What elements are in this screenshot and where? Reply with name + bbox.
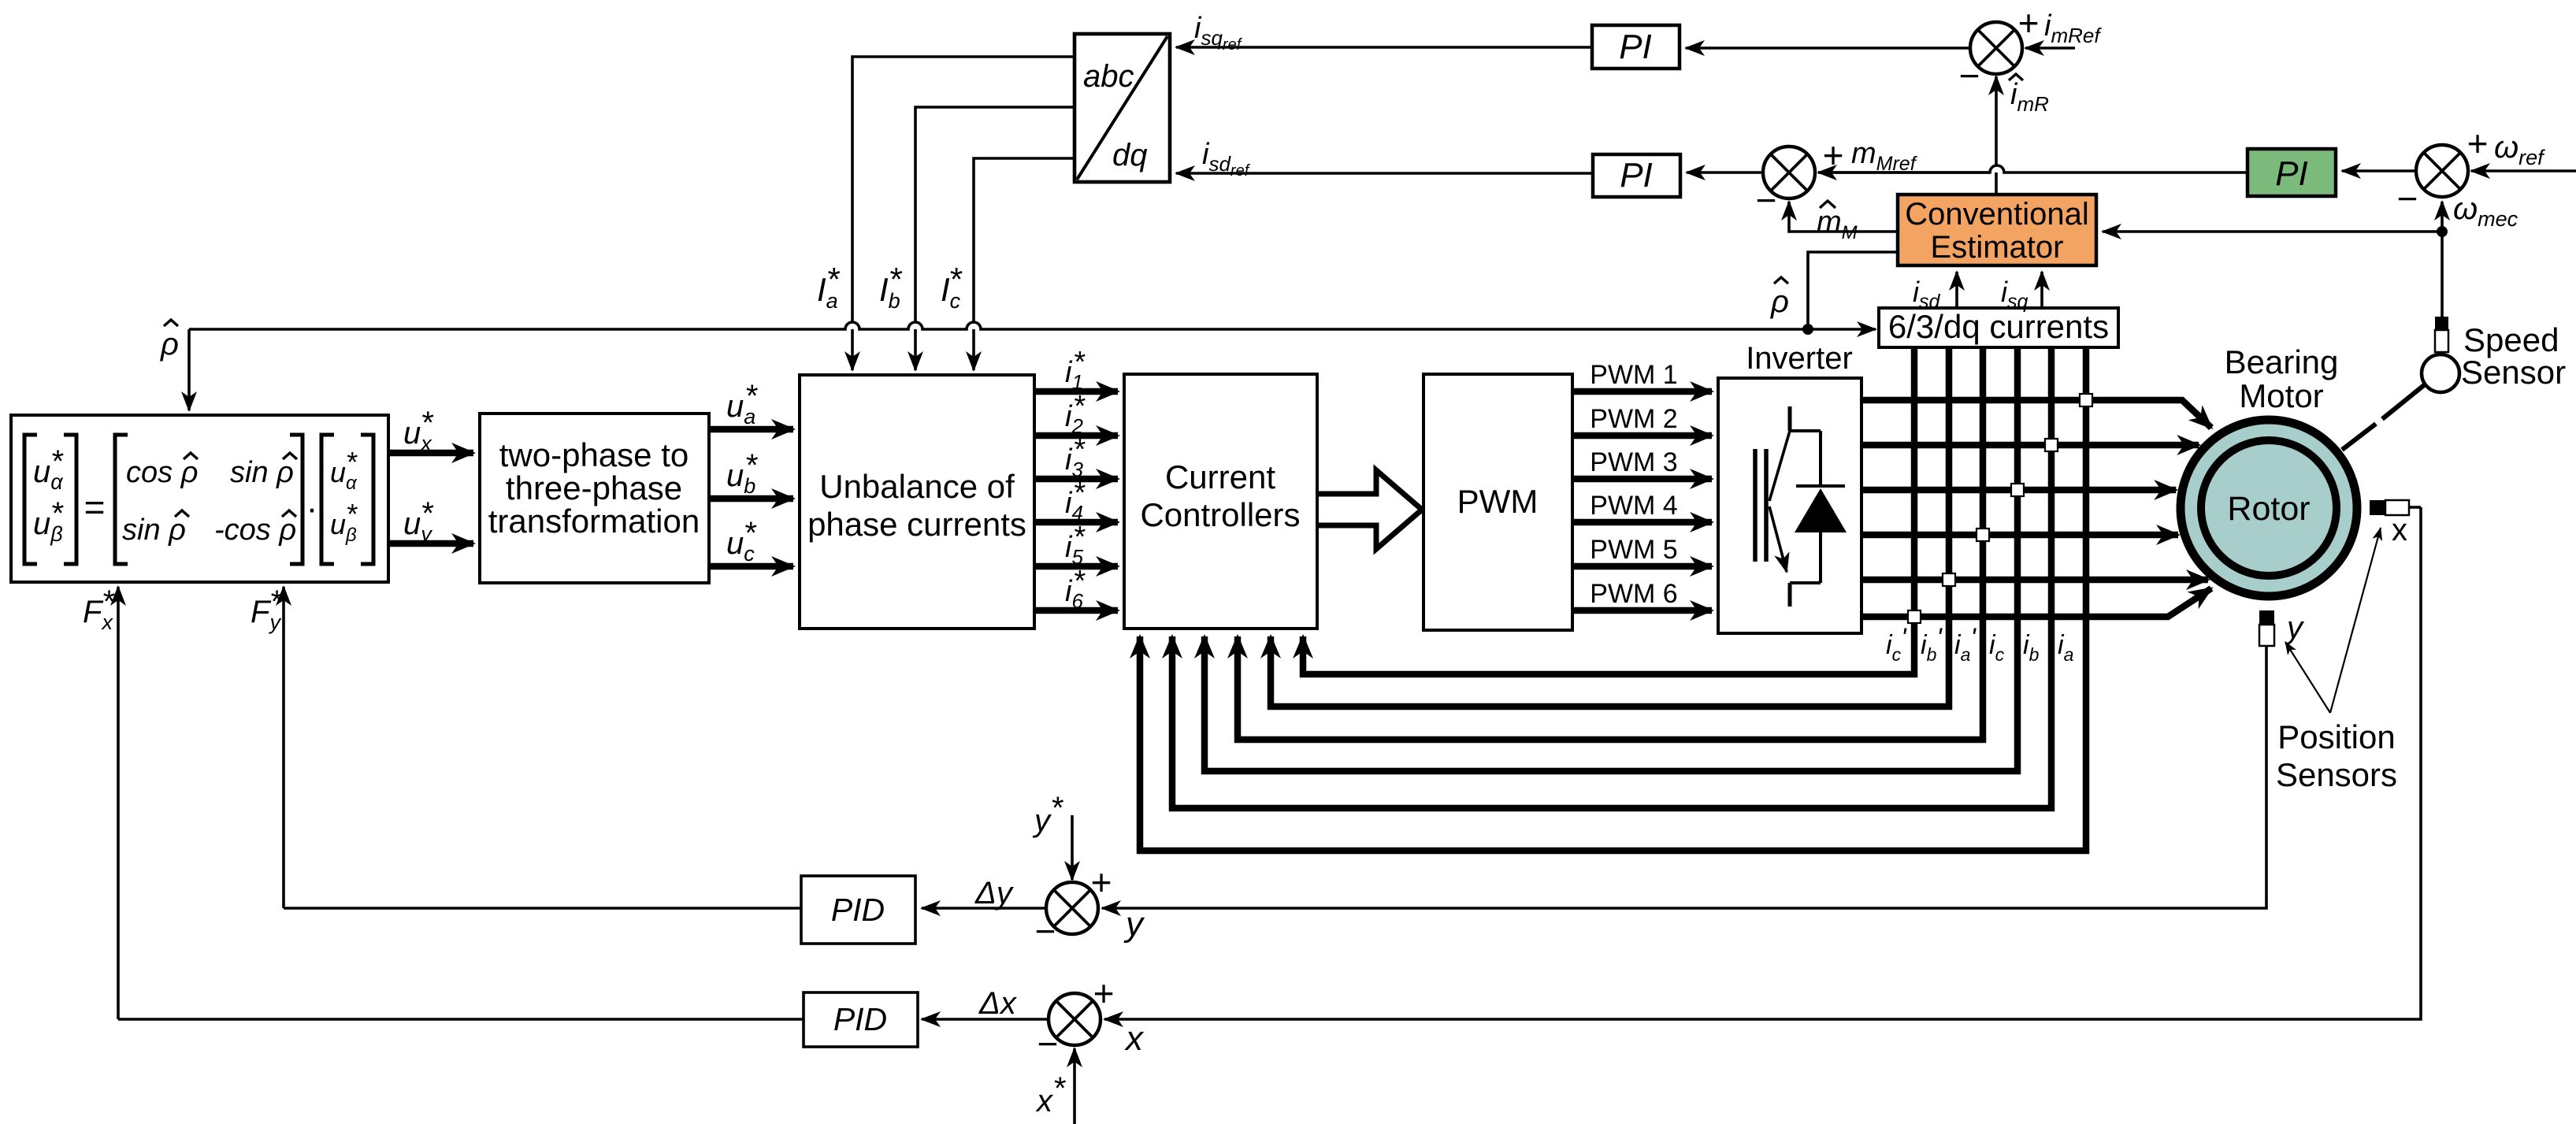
svg-text:PI: PI [1620,156,1653,195]
wire delta-y [922,907,1046,910]
wire sense current ic-prime [1303,347,1914,674]
summing junction torque [1763,147,1815,198]
svg-text:+: + [2467,123,2489,164]
wire x feedback [2408,506,2421,509]
block arrow current-controllers to PWM [1319,470,1422,549]
wire PWM2 [1572,432,1712,440]
svg-text:-cos ρ: -cos ρ [214,514,296,547]
svg-text:PWM 3: PWM 3 [1590,447,1677,477]
svg-text:y: y [2285,610,2305,645]
position sensor y icon [2259,610,2274,625]
svg-text:PWM 5: PWM 5 [1590,535,1677,565]
wire uc-star [709,563,793,570]
svg-text:−: − [1037,1023,1059,1064]
wire i6-star [1034,607,1118,614]
wire PWM5 [1572,563,1712,570]
svg-text:PWM 2: PWM 2 [1590,404,1677,434]
wire motor line 5 [1861,577,2208,584]
svg-text:Δy: Δy [974,876,1015,911]
svg-text:+: + [1091,862,1112,903]
wire PWM4 [1572,519,1712,526]
wire motor line 6 [1861,588,2211,617]
summing junction x [1049,993,1101,1045]
wire omega-ref [2471,169,2576,172]
wire sense current ib-prime [1271,347,1949,707]
wire omega-mec to estimator [2103,230,2442,233]
wire Ia-star [852,57,1075,370]
wire isd [1955,272,1958,308]
wire PWM6 [1572,607,1712,614]
svg-text:−: − [1035,911,1056,952]
svg-text:ρ: ρ [160,327,179,362]
wire isq [2040,272,2043,308]
svg-text:6/3/dq currents: 6/3/dq currents [1888,308,2109,345]
summing junction omega [2416,145,2468,197]
svg-text:PID: PID [833,1001,887,1037]
svg-text:Sensors: Sensors [2276,756,2397,793]
svg-text:cos ρ: cos ρ [126,456,198,489]
svg-text:Conventional: Conventional [1905,197,2089,232]
block unbalance of phase currents [800,375,1034,629]
wire sense current ib [1172,347,2051,808]
wire rho-hat from estimator [1808,252,1898,324]
block PI isq [1592,25,1680,69]
svg-text:x: x [2392,513,2407,547]
svg-text:x: x [1124,1019,1145,1058]
wire isd-ref [1176,172,1593,175]
svg-text:PI: PI [2275,154,2308,193]
wire imRef [2025,46,2075,50]
svg-text:*: * [1054,1071,1067,1106]
svg-text:abc: abc [1083,59,1134,94]
svg-text:Speed: Speed [2463,321,2559,358]
svg-text:two-phase to: two-phase to [499,436,689,473]
wire sense current ia-prime [1238,347,1983,740]
svg-text:·: · [306,489,318,528]
svg-text:Bearing: Bearing [2225,343,2339,380]
wire i3-star [1034,476,1118,483]
position sensor x icon [2370,500,2385,515]
wire torque junction to PI2 [1687,171,1763,174]
svg-text:PWM 6: PWM 6 [1590,579,1677,609]
block inverter box [1718,378,1861,633]
wire isq-ref [1176,46,1592,49]
wire i2-star [1034,432,1118,440]
wire rho to currents block [1808,328,1876,331]
bearing motor with rotor [2181,420,2357,596]
matrix transformation block [11,415,388,582]
svg-text:three-phase: three-phase [506,469,682,506]
svg-text:PI: PI [1619,28,1652,66]
wire motor line 3 [1861,487,2176,494]
wire sense current ic [1204,347,2017,771]
svg-text:*: * [1052,791,1064,825]
svg-text:Sensor: Sensor [2461,354,2566,391]
svg-text:PWM: PWM [1457,483,1539,520]
svg-text:Inverter: Inverter [1746,341,1853,376]
svg-text:Estimator: Estimator [1931,230,2064,265]
svg-text:x: x [1035,1084,1054,1118]
svg-text:PID: PID [831,892,885,928]
speed sensor icon [2342,424,2376,450]
svg-text:PWM 4: PWM 4 [1590,491,1677,521]
summing junction imR [1970,22,2022,74]
block PI isd [1593,154,1680,197]
block speed PI controller [2248,149,2336,196]
wire sense current ia [1140,347,2086,851]
svg-text:y: y [1032,803,1052,838]
wire rho-hat to matrix block [845,322,859,329]
wire junction to PI isq [1686,46,1970,50]
svg-text:dq: dq [1112,138,1148,172]
block PID x [804,992,918,1047]
block two-phase to three-phase transformation [480,414,709,583]
wire ua-star [709,426,793,433]
wire i1-star [1034,388,1118,395]
svg-text:=: = [84,487,106,528]
wire i5-star [1034,563,1118,570]
block 6/3/dq currents [1879,308,2118,347]
svg-text:+: + [2018,2,2040,43]
svg-text:phase currents: phase currents [807,506,1026,543]
wire Fx-star feedback [117,587,120,1019]
svg-text:Controllers: Controllers [1140,496,1300,533]
block abc/dq transform [1075,34,1170,182]
svg-text:Motor: Motor [2239,377,2323,414]
summing junction y [1046,882,1098,934]
wire m-hat-M [1789,202,1898,232]
wire x-star [1073,1048,1076,1124]
wire Fy-star feedback [282,587,285,908]
wire delta-x [922,1018,1049,1021]
wire i-hat-mR [1995,76,1998,195]
wire Ib-star [915,107,1075,370]
svg-text:−: − [2397,178,2418,219]
wire omega-mec to junction [2441,232,2444,317]
svg-text:+: + [1823,135,1844,176]
wire motor line 2 [1861,442,2199,449]
svg-text:transformation: transformation [488,503,700,540]
svg-text:Current: Current [1165,458,1275,495]
svg-text:Unbalance of: Unbalance of [819,468,1015,505]
wire PWM1 [1572,388,1712,395]
svg-text:sin ρ: sin ρ [122,514,186,547]
wire Ic-star [974,158,1075,370]
svg-text:PWM 1: PWM 1 [1590,360,1677,390]
svg-text:−: − [1959,55,1980,96]
wire y-star [1071,815,1074,880]
svg-text:Rotor: Rotor [2227,490,2310,528]
block PWM [1423,374,1572,630]
wire motor line 4 [1861,532,2178,539]
wire uy-star [388,540,473,547]
svg-text:y: y [1123,905,1145,944]
wire ub-star [709,495,793,503]
svg-text:Position: Position [2277,718,2395,755]
wire motor line 1 [1861,400,2211,428]
wire y feedback [1102,646,2266,908]
svg-text:Δx: Δx [978,986,1018,1021]
crossing jump squares [2080,394,2092,406]
block PID y [801,876,915,944]
transistor IGBT symbol [1788,406,1792,431]
block current controllers [1124,374,1317,629]
wire mMref [1990,165,2004,172]
wire i4-star [1034,519,1118,526]
wire ux-star [388,450,473,457]
svg-text:+: + [1093,973,1115,1014]
svg-text:sin ρ: sin ρ [230,456,294,489]
svg-text:ρ: ρ [1770,284,1789,319]
svg-text:−: − [1756,180,1777,221]
block conventional estimator [1898,195,2096,265]
wire PWM3 [1572,476,1712,483]
wire omega-junction to PI [2342,169,2416,172]
position sensor pointer arrows [2285,642,2330,713]
